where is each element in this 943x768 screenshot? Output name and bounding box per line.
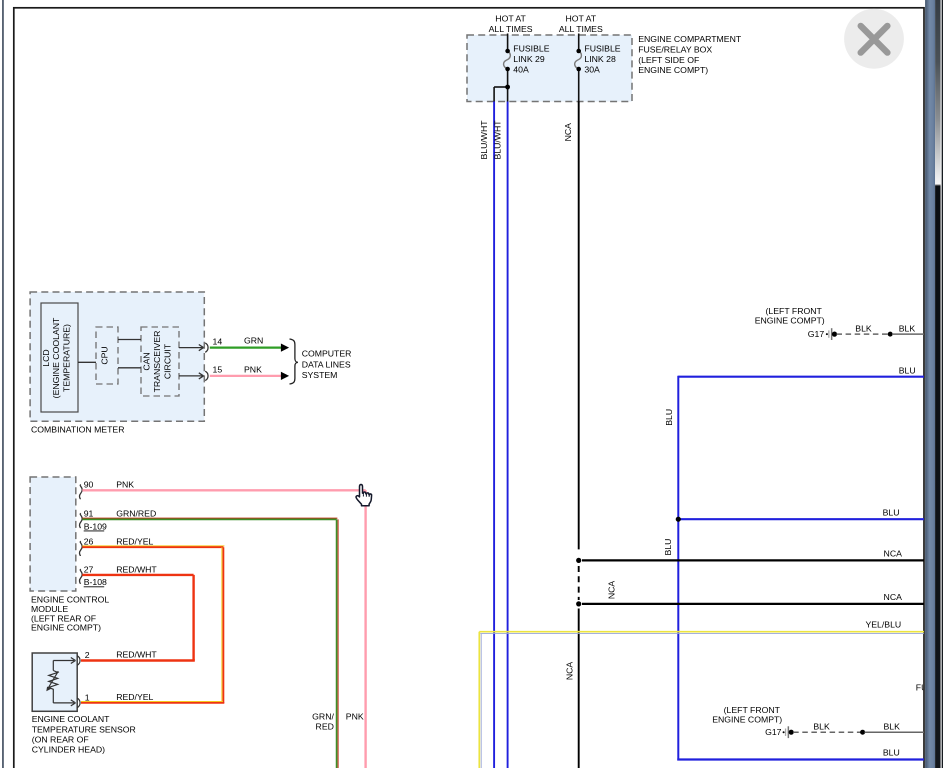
svg-text:BLK: BLK: [855, 324, 872, 334]
svg-text:RED: RED: [316, 722, 334, 732]
svg-text:BLU/WHT: BLU/WHT: [479, 120, 489, 160]
svg-text:1: 1: [85, 693, 90, 703]
svg-text:YEL/BLU: YEL/BLU: [865, 620, 901, 630]
svg-text:RED/YEL: RED/YEL: [116, 536, 153, 546]
svg-text:RED/YEL: RED/YEL: [116, 692, 153, 702]
svg-text:FUSIBLE: FUSIBLE: [584, 44, 620, 54]
svg-text:TEMPERATURE SENSOR: TEMPERATURE SENSOR: [32, 724, 136, 734]
svg-text:(LEFT SIDE OF: (LEFT SIDE OF: [638, 55, 699, 65]
svg-text:ENGINE COMPT): ENGINE COMPT): [755, 316, 825, 326]
svg-text:91: 91: [84, 509, 94, 519]
svg-text:CPU: CPU: [99, 346, 109, 364]
svg-text:BLU: BLU: [663, 539, 673, 556]
svg-text:TEMPERATURE): TEMPERATURE): [62, 324, 72, 392]
svg-text:TRANSCEIVER: TRANSCEIVER: [152, 331, 162, 393]
svg-text:CIRCUIT: CIRCUIT: [163, 343, 173, 379]
svg-text:BLK: BLK: [813, 722, 830, 732]
svg-text:LINK 29: LINK 29: [513, 54, 545, 64]
svg-text:NCA: NCA: [564, 662, 574, 681]
svg-text:RED/WHT: RED/WHT: [116, 650, 157, 660]
svg-text:RED/WHT: RED/WHT: [116, 564, 157, 574]
svg-text:COMBINATION METER: COMBINATION METER: [31, 424, 124, 434]
svg-text:LINK 28: LINK 28: [584, 54, 616, 64]
svg-text:HOT AT: HOT AT: [566, 13, 597, 23]
svg-text:BLU: BLU: [883, 748, 900, 758]
svg-text:CAN: CAN: [141, 352, 151, 370]
svg-text:PNK: PNK: [244, 365, 262, 375]
svg-text:GRN/RED: GRN/RED: [116, 509, 156, 519]
svg-text:B-109: B-109: [84, 521, 107, 531]
svg-text:2: 2: [85, 650, 90, 660]
svg-text:(ENGINE COOLANT: (ENGINE COOLANT: [51, 317, 61, 398]
svg-text:NCA: NCA: [606, 581, 616, 600]
svg-text:BLU: BLU: [664, 409, 674, 426]
svg-text:G17: G17: [808, 329, 825, 339]
svg-text:ENGINE COMPT): ENGINE COMPT): [712, 715, 782, 725]
svg-text:SYSTEM: SYSTEM: [302, 370, 338, 380]
svg-text:LCD: LCD: [41, 349, 51, 366]
svg-text:FUSE/RELAY BOX: FUSE/RELAY BOX: [638, 45, 712, 55]
svg-text:(ON REAR OF: (ON REAR OF: [32, 735, 89, 745]
svg-text:ALL TIMES: ALL TIMES: [559, 24, 603, 34]
svg-text:ENGINE COOLANT: ENGINE COOLANT: [32, 714, 110, 724]
svg-text:ENGINE COMPT): ENGINE COMPT): [638, 65, 708, 75]
svg-text:ENGINE COMPARTMENT: ENGINE COMPARTMENT: [638, 34, 742, 44]
svg-text:30A: 30A: [584, 64, 600, 74]
svg-text:BLU: BLU: [883, 507, 900, 517]
svg-text:BLU/WHT: BLU/WHT: [493, 120, 503, 160]
svg-text:G17: G17: [765, 727, 782, 737]
svg-text:NCA: NCA: [884, 592, 903, 602]
svg-text:BLK: BLK: [899, 324, 916, 334]
svg-text:BLK: BLK: [883, 722, 900, 732]
svg-text:27: 27: [84, 564, 94, 574]
svg-text:COMPUTER: COMPUTER: [302, 349, 352, 359]
svg-text:GRN/: GRN/: [312, 711, 334, 721]
svg-text:ENGINE COMPT): ENGINE COMPT): [31, 623, 101, 633]
svg-text:15: 15: [213, 365, 223, 375]
svg-text:90: 90: [84, 480, 94, 490]
svg-text:(LEFT FRONT: (LEFT FRONT: [724, 705, 781, 715]
svg-text:FUSIBLE: FUSIBLE: [513, 44, 549, 54]
svg-text:40A: 40A: [513, 64, 529, 74]
svg-text:PNK: PNK: [346, 711, 364, 721]
svg-text:BLU: BLU: [899, 366, 916, 376]
svg-text:(LEFT FRONT: (LEFT FRONT: [766, 306, 823, 316]
svg-text:B-108: B-108: [84, 577, 107, 587]
svg-text:ALL TIMES: ALL TIMES: [489, 24, 533, 34]
svg-text:HOT AT: HOT AT: [495, 13, 526, 23]
svg-text:26: 26: [84, 536, 94, 546]
svg-text:DATA LINES: DATA LINES: [302, 359, 351, 369]
svg-text:NCA: NCA: [884, 549, 903, 559]
svg-text:PNK: PNK: [116, 480, 134, 490]
svg-text:GRN: GRN: [244, 336, 263, 346]
svg-text:CYLINDER HEAD): CYLINDER HEAD): [32, 745, 105, 755]
svg-text:NCA: NCA: [563, 123, 573, 142]
svg-text:14: 14: [213, 336, 223, 346]
